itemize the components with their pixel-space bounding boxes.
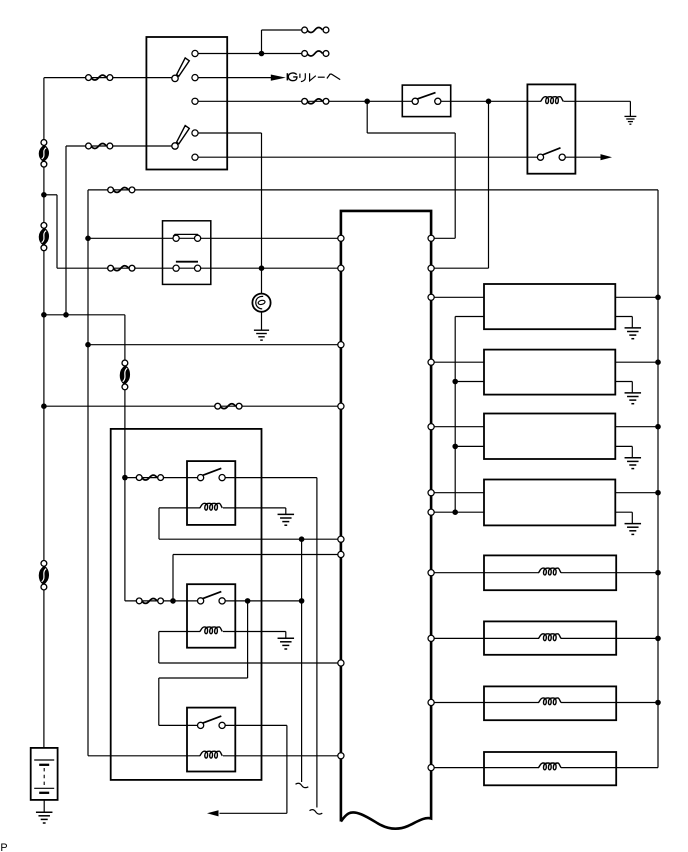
wire ECU to motor1 [431,296,484,298]
connector pin row1 right [195,235,201,241]
ECU right pin y268.2 [428,265,434,271]
ECU right pin y702.5 [428,699,434,705]
ECU right pin y362.2 [428,359,434,365]
wire ignition B1 to fuse row2 [195,53,305,55]
fuse relay2 [136,598,163,604]
wire to relay1 switch [125,477,201,479]
ignition switch pivot AM2 [172,143,178,149]
node [63,312,69,318]
node [85,342,91,348]
wire chain to motor3 pin2 [455,445,484,447]
wire ECU to solenoid [431,702,539,704]
wire ignition ST to relay switch [195,156,541,158]
ECU main body outline [341,211,431,829]
wire main feed down [87,190,89,756]
wire motor chain vertical [454,317,456,513]
relay3 switch [198,716,226,728]
node [655,295,661,301]
relay1 switch [198,468,226,480]
wire motor4 to right bus [615,492,658,494]
ground motor3 [625,458,642,469]
ECU right pin y572.7 [428,570,434,576]
ground relay1 [278,514,295,525]
wire relay1 coil to ECU [159,538,341,540]
ground motor4 [625,524,642,535]
wire right bus [657,190,659,768]
unlock warning relay box [527,84,575,173]
unlock warning relay switch [537,148,565,160]
wire ECU to motor4 pin2 [431,511,484,513]
node [655,490,661,496]
ignition switch box [146,37,227,170]
door courtesy switch box [402,85,450,117]
wire main B+ bus [88,189,658,191]
arrow to IG relay [271,75,286,81]
wire motor1 ground stem [631,317,633,328]
label IG relay (IG リレーへ) [287,73,340,82]
fuse main [108,187,135,193]
ground battery [36,812,53,823]
wire node to connector row1 to ECU [88,237,341,239]
wire ignition IG1 to IG relay [195,77,271,79]
wire lamp to ground [261,312,263,330]
wire ignition AM2 down [65,146,67,315]
fuse AM2 [86,143,113,149]
wire relay1 out drop to break [316,478,318,808]
relay2 box [187,584,235,648]
node [655,636,661,642]
ECU left pin y406.2 [338,403,344,409]
ground relay2 [278,638,295,649]
wire battery feed to ignition AM1 [44,77,175,79]
door lock motor1 box [484,284,615,329]
connector pin row2 left [173,265,179,271]
fusible link main1 [39,140,49,168]
svg-text:P: P [0,842,7,852]
wire ECU to solenoid [431,767,539,769]
node [655,359,661,365]
wire ECU to motor3 [431,426,484,428]
ignition switch lever AM1 [177,58,190,76]
ECU left pin y755.8 [338,753,344,759]
fuse row1 [302,27,329,33]
node [122,475,128,481]
wire node drop [366,101,368,133]
wire relay2 coil left [159,631,200,633]
ignition contact B2 [192,98,198,104]
fusible link branch [120,360,130,390]
ignition contact ST [192,154,198,160]
ground lamp [254,330,269,340]
wire node drop to ECU pin [488,101,490,268]
wire fuse to ignition AM2 [66,145,175,147]
ignition contact B1 [192,50,198,56]
wire battery to ground [43,800,45,812]
wire motor1 to right bus [615,296,658,298]
wire motor1 to ground [615,316,632,318]
solenoid4 coil [539,763,562,770]
solenoid1 box [484,555,616,590]
node [452,379,458,385]
arrow relay output [601,154,613,160]
fuse relay1 [136,475,163,481]
wire solenoid to right bus [561,702,658,704]
ECU right pin y238.3 [428,235,434,241]
door lock control assembly box [111,429,262,780]
fusible link battery [39,561,49,590]
wire chain to motor2 pin2 [455,381,484,383]
node [41,312,47,318]
solenoid3 coil [539,698,562,705]
unlock warning relay coil [541,97,564,104]
wire ignition ACC to lamp node [195,132,262,134]
wire relay2 coil to ECU [159,662,341,664]
wire motor3 to right bus [615,426,658,428]
arrow relay3 output [207,810,219,816]
wire relay1 coil drop [158,508,160,539]
wire motor2 to ground [615,381,632,383]
wire drop to ECU pin [454,133,456,238]
wire relay3 switch out [222,724,287,726]
wire relay3 coil to ECU [223,755,341,757]
wire door switch to relay coil [438,100,541,102]
ECU right pin y767.6 [428,765,434,771]
node [655,700,661,706]
wire relay coil to ground [564,100,631,102]
fuse AM1 [86,75,113,81]
wire ECU R2 stub [431,267,488,269]
wire relay2 coil to ground [223,631,286,633]
wire solenoid to right bus [561,637,658,639]
wire relay1 ground stem [285,508,287,514]
node [364,99,370,105]
wire motor3 ground stem [631,446,633,457]
door lock motor3 box [484,414,615,460]
wire break squiggle 2 [310,810,323,814]
solenoid2 box [484,621,616,654]
wire break squiggle 1 [296,783,309,787]
wire relay3 out drop [286,725,288,813]
ignition contact ACC [192,130,198,136]
wire relay2 coil drop [158,632,160,664]
ECU right pin y426.7 [428,424,434,430]
ECU left pin y554.5 [338,551,344,557]
wire ECU R1 stub [431,237,455,239]
wire solenoid to right bus [561,572,658,574]
wire relay1 coil left [159,507,200,509]
wire motor3 to ground [615,445,632,447]
connector pin row1 left [173,235,179,241]
wire relay1 switch out [222,477,317,479]
fusible link main2 [39,223,49,251]
relay2 switch [198,592,226,604]
wire node to ECU pin route [367,132,455,134]
node [655,570,661,576]
wire relay3 feed drop [158,678,160,725]
solenoid2 coil [539,634,562,641]
wire fuse connector row2 to ECU [57,267,341,269]
wire ignition B2 through fuse to door switch [195,100,415,102]
wire relay3 out arrow [220,812,287,814]
ECU left pin y268.2 [338,265,344,271]
wire ECU to motor4 pin1 [431,492,484,494]
solenoid4 box [484,752,616,785]
fuse acc circuit [108,265,135,271]
ECU right pin y512.2 [428,509,434,515]
node [41,192,47,198]
battery cells [34,760,54,793]
wire relay2 input sense to ECU [173,554,341,556]
fuse row2 [302,51,329,57]
ground motor2 [625,393,642,404]
wire branch [44,194,57,196]
node [85,236,91,242]
solenoid3 box [484,686,616,720]
ignition switch pivot AM1 [172,75,178,81]
wire solenoid to right bus [561,767,658,769]
wire ECU to solenoid [431,572,539,574]
ECU right pin y492.7 [428,490,434,496]
node [655,424,661,430]
wire ACC drop to lamp [261,133,263,294]
wire to relay2 switch [125,600,201,602]
node [41,403,47,409]
node [452,444,458,450]
wire from node to fuse row1 [262,29,305,31]
wire node drop to break [301,539,303,782]
wire node to ECU [88,344,341,346]
node [299,536,305,542]
wire motor4 ground stem [631,512,633,523]
wire to relay3 switch [159,724,201,726]
connector pin row2 right [195,265,201,271]
node [299,598,305,604]
wire motor4 to ground [615,511,632,513]
node [245,598,251,604]
wire to relay3 coil [88,755,200,757]
ECU left pin y344.7 [338,342,344,348]
wire relay2 out drop [247,601,249,678]
wire fuse row1 drop [261,30,263,54]
relay3 box [187,708,235,772]
relay2 coil [200,627,223,634]
wire left bus to battery [43,587,45,748]
node [259,265,265,271]
wire relay2 sense drop [172,555,174,601]
fuse row3 [302,98,329,104]
wire left bus mid [43,248,45,564]
solenoid1 coil [539,568,562,575]
wire chain to motor1 pin2 [455,316,484,318]
ground unlock warning relay [624,116,636,124]
ECU left pin y539.2 [338,536,344,542]
wire left bus upper [43,78,45,143]
wire relay2 switch out [222,600,302,602]
ECU right pin y638.4 [428,635,434,641]
wire fusible link down [124,387,126,601]
connector row2 bar [176,261,198,263]
relay3 coil [200,751,223,758]
node [170,598,176,604]
wire motor2 to right bus [615,361,658,363]
wire relay1 coil to ground [223,507,286,509]
relay1 coil [200,503,223,510]
wire ECU to solenoid [431,637,539,639]
ignition switch lever AM2 [177,126,190,144]
wire left bus [43,164,45,225]
wire to fusible link [124,315,126,363]
key illumination lamp [252,294,270,312]
wire bus through fuse to ECU [44,405,341,407]
connector row1 bar [173,234,199,236]
fuse ECU feed [215,403,242,409]
wire relay2 out to relay3 route [159,677,248,679]
relay1 box [187,461,235,525]
wire bus branch [44,314,125,316]
door switch contacts [412,93,441,105]
node [452,509,458,515]
ground motor1 [625,328,642,339]
ECU left pin y663 [338,660,344,666]
door lock motor4 box [484,480,615,526]
node [486,99,492,105]
ignition contact IG1 [192,75,198,81]
door lock motor2 box [484,350,615,395]
node [259,51,265,57]
wire relay switch out [562,156,601,158]
wire branch down [56,195,58,268]
wire relay2 ground stem [285,632,287,639]
wire ECU to motor2 [431,361,484,363]
ECU right pin y297.3 [428,294,434,300]
battery box [31,748,58,800]
connector box [163,221,211,285]
ECU left pin y238.3 [338,235,344,241]
wire relay coil ground stem [629,101,631,116]
wire motor2 ground stem [631,382,633,393]
